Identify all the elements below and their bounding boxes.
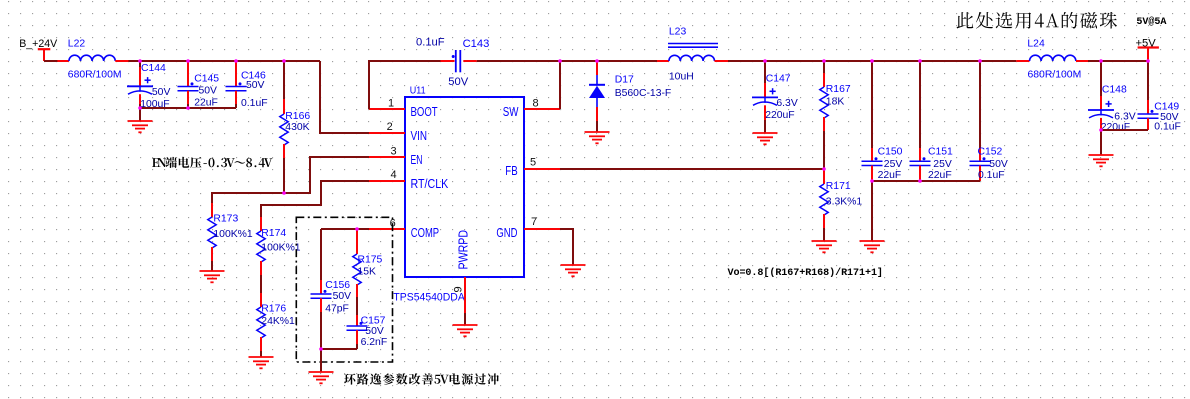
svg-text:C147: C147 (766, 74, 791, 85)
inductor L22 (57, 39, 128, 81)
node junction R166 (282, 59, 286, 63)
capacitor C157 (347, 315, 388, 349)
port B_+24V (19, 38, 58, 61)
resistor R167 (820, 61, 851, 169)
svg-text:1: 1 (388, 97, 394, 109)
svg-text:5V@5A: 5V@5A (1136, 16, 1167, 28)
capacitor C143 (416, 37, 489, 88)
node junction C151 bottom (918, 179, 922, 183)
node junction C150 top (870, 59, 874, 63)
ground under C150 (860, 241, 885, 252)
capacitor C146 (226, 61, 268, 109)
wire FB net (560, 168, 824, 170)
capacitor C148 (1088, 61, 1136, 133)
svg-text:220uF: 220uF (765, 110, 794, 121)
svg-text:EN: EN (411, 152, 423, 167)
wire output capacitor bottom rail (872, 180, 980, 182)
wire C143 to SW node (477, 60, 560, 62)
svg-text:50V: 50V (365, 326, 384, 337)
pin 4 RT/CLK (369, 169, 405, 181)
inductor L24 (1016, 39, 1088, 81)
svg-text:R176: R176 (261, 304, 286, 315)
resistor R175 (353, 229, 383, 315)
svg-text:50V: 50V (333, 291, 352, 302)
node junction C148 bottom (1099, 128, 1103, 132)
svg-text:Vo=0.8[(R167+R168)/R171+1]: Vo=0.8[(R167+R168)/R171+1] (728, 267, 883, 279)
svg-text:R173: R173 (213, 214, 238, 225)
capacitor C149 (1138, 61, 1181, 133)
resistor R173 (208, 203, 253, 271)
resistor R174 (257, 217, 301, 275)
svg-text:C152: C152 (978, 146, 1003, 157)
inductor L23 (657, 26, 728, 82)
node junction C150 bottom (870, 179, 874, 183)
svg-text:RT/CLK: RT/CLK (411, 176, 449, 191)
svg-text:3.3K%1: 3.3K%1 (826, 197, 863, 208)
diode D17 (589, 61, 671, 132)
svg-text:6.2nF: 6.2nF (361, 337, 388, 348)
pin 6 COMP (369, 218, 405, 230)
svg-text:C151: C151 (928, 146, 953, 157)
node junction +5V (1146, 59, 1150, 63)
svg-text:C145: C145 (194, 74, 219, 85)
wire input rail (128, 60, 320, 62)
wire C148 to ground (1100, 130, 1102, 155)
op-amp U11 TPS54540DDA body (393, 85, 524, 303)
svg-text:B560C-13-F: B560C-13-F (615, 88, 672, 99)
port +5V (1136, 38, 1159, 61)
svg-text:25V: 25V (933, 159, 952, 170)
wire COMP net (321, 228, 369, 230)
svg-text:680R/100M: 680R/100M (1028, 69, 1082, 80)
svg-text:R167: R167 (826, 84, 851, 95)
wire SW rail (560, 60, 657, 62)
svg-text:L22: L22 (68, 39, 86, 50)
resistor R171 (820, 169, 863, 241)
svg-text:6.3V: 6.3V (1114, 112, 1135, 123)
wire BOOT riser (369, 61, 441, 109)
node junction R166 bottom EN (282, 191, 286, 195)
svg-text:47pF: 47pF (325, 304, 349, 315)
node junction COMP R175 (355, 227, 359, 231)
svg-text:50V: 50V (199, 85, 218, 96)
svg-text:50V: 50V (989, 159, 1008, 170)
pin names U11 (411, 104, 519, 270)
wire port to L22 (44, 60, 58, 62)
wire rail to VIN (320, 61, 369, 133)
svg-text:C157: C157 (361, 315, 386, 326)
capacitor C144 (127, 61, 170, 110)
node junction C146 (234, 59, 238, 63)
node junction C156 bottom (319, 347, 323, 351)
wire pin9 to ground (464, 313, 466, 325)
svg-text:GND: GND (496, 225, 517, 240)
svg-text:6.3V: 6.3V (776, 98, 797, 109)
svg-text:100K%1: 100K%1 (261, 243, 301, 254)
ground under D17 (585, 132, 610, 143)
ground under R176 (249, 357, 274, 368)
svg-text:9: 9 (453, 286, 465, 292)
svg-text:C149: C149 (1154, 101, 1179, 112)
ground under C148 (1089, 155, 1114, 166)
text Vo formula (728, 267, 883, 279)
svg-text:22uF: 22uF (878, 170, 902, 181)
pin 2 VIN (369, 121, 405, 133)
pin 3 EN (369, 145, 405, 157)
svg-text:L23: L23 (669, 26, 687, 37)
svg-text:COMP: COMP (411, 225, 439, 240)
wire R174 to R176 (260, 275, 262, 293)
ground under GND pin (561, 265, 586, 276)
resistor R176 (257, 293, 295, 357)
svg-text:C150: C150 (878, 146, 903, 157)
svg-text:50V: 50V (246, 80, 265, 91)
capacitor C145 (178, 61, 220, 108)
wire GND pin to ground (560, 229, 573, 265)
wire compensation bottom (321, 348, 357, 350)
wire box to ground (320, 349, 322, 372)
ground under R173 (200, 271, 225, 282)
svg-text:50V: 50V (448, 76, 468, 88)
svg-text:0.1uF: 0.1uF (978, 170, 1005, 181)
svg-text:5: 5 (530, 156, 536, 168)
svg-text:R171: R171 (826, 181, 851, 192)
wire C150 bottom to ground (871, 181, 873, 241)
node junction C151 top (918, 59, 922, 63)
text 5V@5A (1136, 16, 1167, 28)
capacitor C156 (311, 229, 352, 349)
node junction SW (558, 59, 562, 63)
ground under R171 (812, 241, 837, 252)
pin 9 PWRPD (453, 277, 466, 313)
wire to ground under C144 (139, 108, 141, 121)
svg-text:SW: SW (503, 104, 519, 119)
svg-text:VIN: VIN (411, 128, 428, 143)
svg-text:10uH: 10uH (669, 71, 694, 82)
svg-text:C143: C143 (463, 38, 490, 50)
capacitor C152 (970, 61, 1008, 181)
text EN voltage annotation (152, 157, 272, 168)
node junction C147 (763, 59, 767, 63)
svg-text:R175: R175 (358, 254, 383, 265)
svg-text:430K: 430K (285, 122, 309, 133)
wire L24 to +5V (1088, 60, 1148, 62)
svg-text:0.1uF: 0.1uF (416, 37, 445, 49)
svg-text:7: 7 (531, 216, 537, 228)
pin 8 SW (524, 98, 560, 110)
node junction C145 (186, 59, 190, 63)
svg-text:25V: 25V (884, 159, 903, 170)
svg-text:B_+24V: B_+24V (19, 38, 58, 50)
svg-text:22uF: 22uF (928, 170, 952, 181)
node junction R167 (822, 59, 826, 63)
svg-text:PWRPD: PWRPD (456, 230, 471, 270)
svg-text:+5V: +5V (1136, 38, 1157, 50)
svg-text:L24: L24 (1027, 39, 1045, 50)
text ferrite bead annotation (957, 12, 1118, 29)
svg-text:U11: U11 (410, 85, 426, 96)
svg-text:4: 4 (390, 169, 396, 181)
svg-text:0.1uF: 0.1uF (241, 98, 268, 109)
svg-text:8: 8 (533, 98, 539, 110)
svg-text:2: 2 (387, 121, 393, 133)
svg-text:BOOT: BOOT (411, 104, 438, 119)
pin 7 GND (524, 216, 560, 229)
svg-text:18K: 18K (826, 96, 845, 107)
node junction C145 bottom (186, 106, 190, 110)
svg-text:0.1uF: 0.1uF (1154, 122, 1181, 133)
svg-text:3: 3 (390, 145, 396, 157)
svg-text:100K%1: 100K%1 (213, 229, 253, 240)
capacitor C151 (910, 61, 954, 181)
svg-text:D17: D17 (615, 74, 634, 85)
ground under compensation box (309, 372, 334, 383)
node junction C144 bottom (138, 106, 142, 110)
text loop compensation annotation (344, 373, 499, 384)
wire output rail (728, 60, 1016, 62)
svg-text:R174: R174 (261, 228, 286, 239)
wire RT/CLK net (261, 181, 369, 217)
svg-text:C144: C144 (141, 63, 166, 74)
ground under pin 9 (453, 325, 478, 336)
svg-text:50V: 50V (152, 87, 171, 98)
svg-text:15K: 15K (358, 266, 377, 277)
svg-text:R166: R166 (285, 111, 310, 122)
capacitor C150 (862, 61, 903, 181)
capacitor C147 (752, 61, 798, 133)
node junction C152 top (978, 59, 982, 63)
node junction FB R171 (822, 167, 826, 171)
svg-text:C156: C156 (325, 280, 350, 291)
node junction D17 (595, 59, 599, 63)
svg-text:680R/100M: 680R/100M (68, 69, 122, 80)
svg-text:22uF: 22uF (194, 97, 218, 108)
wire capacitor ground rail (140, 107, 236, 109)
node junction C144 (138, 59, 142, 63)
svg-text:C148: C148 (1102, 84, 1127, 95)
svg-text:220uF: 220uF (1101, 122, 1130, 133)
resistor R166 (280, 61, 311, 193)
dash-dot compensation box (296, 217, 392, 362)
wire C148 C149 bottom (1101, 129, 1148, 131)
ground under C147 (753, 133, 778, 144)
svg-text:24K%1: 24K%1 (261, 316, 295, 327)
pin 5 FB (524, 156, 560, 169)
pin 1 BOOT (369, 97, 405, 109)
node junction C148 (1099, 59, 1103, 63)
svg-text:FB: FB (505, 163, 517, 178)
wire EN net (212, 157, 369, 203)
wire SW riser (559, 61, 561, 109)
ground under C144 (128, 121, 153, 132)
